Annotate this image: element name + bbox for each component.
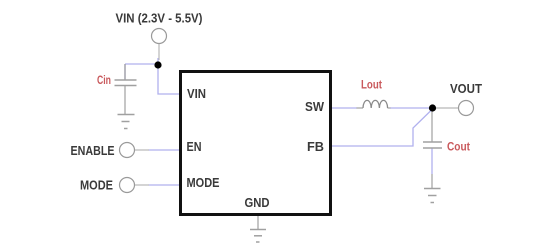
svg-text:Lout: Lout: [361, 78, 382, 92]
svg-text:MODE: MODE: [187, 176, 220, 190]
svg-text:GND: GND: [245, 196, 270, 210]
svg-text:VOUT: VOUT: [450, 82, 482, 96]
svg-text:ENABLE: ENABLE: [71, 144, 115, 158]
svg-text:Cin: Cin: [97, 73, 111, 87]
svg-text:VIN (2.3V - 5.5V): VIN (2.3V - 5.5V): [116, 12, 203, 26]
svg-text:SW: SW: [305, 100, 324, 114]
svg-text:MODE: MODE: [80, 179, 113, 193]
svg-text:VIN: VIN: [187, 87, 206, 101]
svg-text:Cout: Cout: [447, 140, 470, 154]
svg-text:EN: EN: [187, 140, 202, 154]
svg-text:FB: FB: [307, 140, 324, 154]
